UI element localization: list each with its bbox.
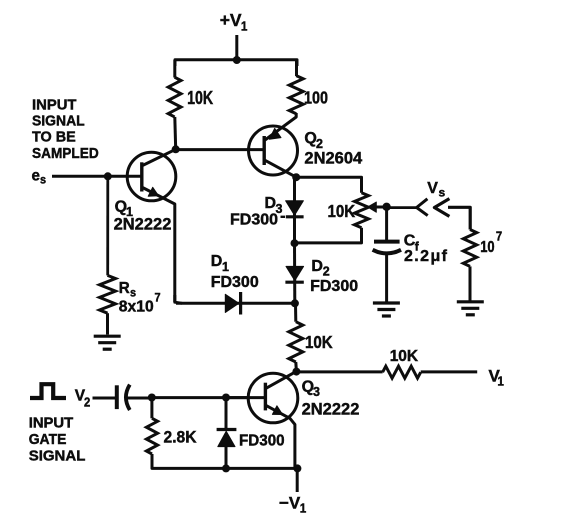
svg-text:1: 1 — [300, 501, 307, 515]
svg-text:FD300: FD300 — [230, 212, 278, 229]
svg-text:2N2222: 2N2222 — [302, 401, 360, 419]
svg-text:1: 1 — [497, 374, 504, 389]
svg-text:7: 7 — [496, 229, 503, 244]
svg-text:SIGNAL: SIGNAL — [32, 113, 85, 130]
svg-text:7: 7 — [155, 292, 161, 304]
svg-text:INPUT: INPUT — [29, 414, 73, 431]
svg-text:FD300: FD300 — [310, 278, 358, 295]
svg-text:2N2604: 2N2604 — [304, 149, 363, 167]
svg-text:D: D — [311, 258, 323, 275]
svg-text:100: 100 — [304, 88, 328, 108]
svg-text:2: 2 — [323, 265, 330, 279]
svg-text:2: 2 — [84, 395, 91, 410]
svg-text:s: s — [439, 186, 446, 200]
svg-text:SAMPLED: SAMPLED — [32, 145, 99, 162]
svg-text:10K: 10K — [390, 348, 419, 365]
svg-text:10: 10 — [480, 239, 494, 257]
svg-text:e: e — [32, 167, 41, 184]
svg-text:V: V — [427, 180, 438, 197]
svg-text:Q: Q — [304, 130, 316, 147]
svg-text:8x10: 8x10 — [119, 298, 154, 315]
svg-text:INPUT: INPUT — [32, 96, 76, 113]
svg-text:FD300: FD300 — [239, 432, 285, 449]
svg-text:+V: +V — [220, 10, 242, 30]
svg-text:2N2222: 2N2222 — [114, 216, 172, 234]
svg-text:TO BE: TO BE — [32, 129, 76, 145]
svg-text:D: D — [265, 195, 277, 212]
svg-text:2.2μf: 2.2μf — [404, 248, 448, 265]
svg-text:FD300: FD300 — [211, 274, 259, 291]
svg-text:3: 3 — [313, 385, 320, 399]
svg-text:1: 1 — [222, 260, 229, 274]
svg-text:−V: −V — [279, 493, 301, 512]
svg-text:10K: 10K — [187, 89, 213, 109]
svg-text:SIGNAL: SIGNAL — [29, 448, 86, 465]
svg-text:R: R — [119, 279, 130, 296]
svg-text:D: D — [211, 253, 223, 270]
svg-text:2.8K: 2.8K — [164, 428, 197, 447]
svg-text:10K: 10K — [328, 201, 356, 222]
svg-text:1: 1 — [241, 19, 248, 34]
svg-text:10K: 10K — [305, 332, 333, 353]
svg-text:GATE: GATE — [29, 431, 67, 448]
svg-text:s: s — [40, 174, 46, 186]
